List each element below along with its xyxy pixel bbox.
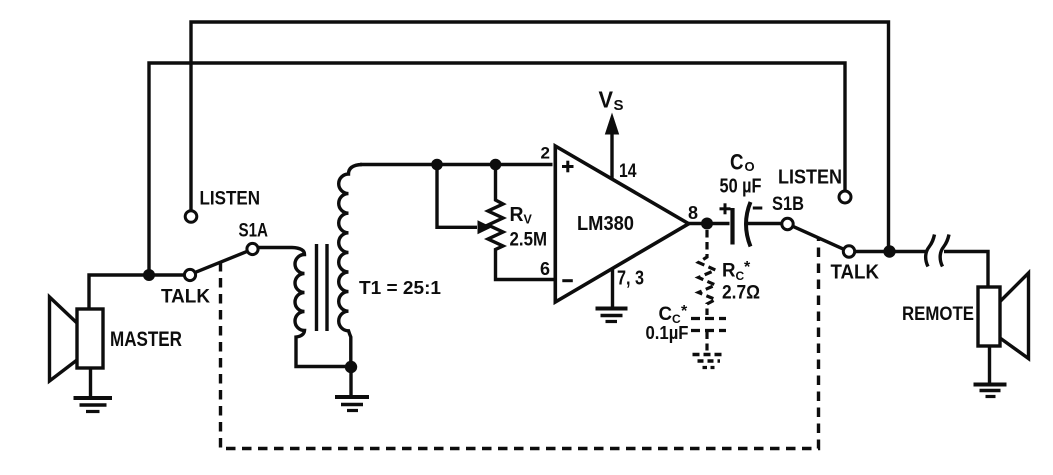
svg-text:LISTEN: LISTEN (200, 189, 261, 210)
svg-text:6: 6 (540, 259, 550, 279)
svg-text:R: R (510, 204, 525, 226)
svg-text:*: * (681, 303, 688, 320)
svg-text:S1B: S1B (772, 194, 804, 215)
svg-text:50 µF: 50 µF (720, 176, 762, 198)
svg-text:LM380: LM380 (577, 213, 634, 235)
svg-text:2: 2 (541, 144, 550, 163)
svg-text:T1 = 25:1: T1 = 25:1 (359, 277, 441, 298)
svg-text:MASTER: MASTER (110, 328, 182, 351)
svg-text:TALK: TALK (161, 287, 210, 308)
svg-text:8: 8 (688, 203, 698, 223)
svg-text:*: * (744, 259, 751, 276)
svg-text:O: O (745, 159, 755, 174)
svg-text:V: V (524, 212, 533, 226)
svg-text:S1A: S1A (239, 221, 269, 242)
svg-text:14: 14 (619, 161, 637, 182)
svg-text:C: C (730, 150, 744, 175)
svg-text:0.1µF: 0.1µF (646, 322, 689, 343)
svg-text:R: R (722, 261, 736, 282)
svg-text:S: S (614, 97, 624, 114)
svg-text:TALK: TALK (831, 262, 880, 284)
svg-text:V: V (599, 87, 614, 113)
svg-text:7, 3: 7, 3 (617, 268, 644, 290)
svg-text:REMOTE: REMOTE (902, 304, 974, 325)
svg-text:2.5M: 2.5M (510, 229, 548, 251)
svg-text:LISTEN: LISTEN (778, 167, 842, 189)
svg-text:2.7Ω: 2.7Ω (722, 283, 760, 304)
